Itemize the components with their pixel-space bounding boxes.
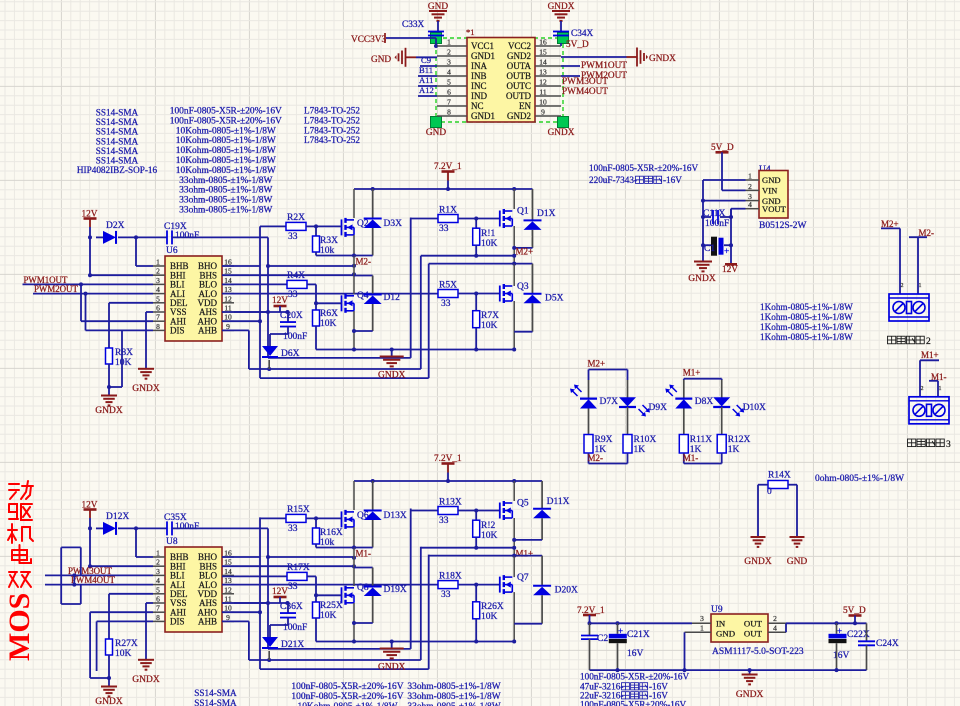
wire U4 VIN: [722, 189, 746, 191]
LED loop top wire: [589, 369, 628, 371]
MOSFET Q1: [513, 189, 515, 209]
U6 pin 12: [222, 302, 234, 304]
wire BHO to gate resistor: [222, 265, 260, 267]
wire U4 pin3: [703, 200, 746, 202]
svg-text:OUT: OUT: [744, 629, 763, 639]
U4 pin 2: [746, 189, 760, 191]
svg-text:R6X: R6X: [320, 309, 338, 319]
title glyph shuang: [9, 571, 17, 573]
resistor R18X: [438, 581, 458, 589]
svg-text:100nF-0805-X5R-±20%-16V: 100nF-0805-X5R-±20%-16V: [291, 692, 403, 702]
resistor R2X: [260, 225, 286, 227]
diode D3X: [372, 189, 374, 219]
svg-text:+: +: [618, 626, 623, 636]
svg-text:1Kohm-0805-±1%-1/8W: 1Kohm-0805-±1%-1/8W: [760, 332, 853, 342]
U4 pin 3: [746, 200, 760, 202]
svg-text:OUTA: OUTA: [507, 61, 532, 71]
title glyph dong: [9, 483, 19, 485]
svg-text:SS14-SMA: SS14-SMA: [96, 146, 139, 156]
svg-text:D8X: D8X: [695, 397, 714, 407]
U8 pin 7: [153, 611, 165, 613]
svg-text:1: 1: [748, 172, 752, 181]
wire BHB to cap junction: [135, 237, 137, 266]
capacitor C11X: [701, 215, 705, 219]
GNDX symbol above C34X: [552, 10, 570, 12]
node M2- dots: [352, 546, 356, 550]
svg-text:R9X: R9X: [595, 435, 613, 445]
svg-text:GND2: GND2: [507, 51, 531, 61]
svg-text:OUTB: OUTB: [507, 71, 532, 81]
svg-text:D21X: D21X: [281, 640, 304, 650]
svg-text:OUTC: OUTC: [507, 81, 532, 91]
svg-text:R26X: R26X: [481, 602, 504, 612]
LED D9X: [619, 397, 636, 406]
svg-text:15: 15: [539, 48, 547, 57]
svg-text:1K: 1K: [634, 445, 646, 455]
svg-text:VCC1: VCC1: [471, 41, 494, 51]
resistor R12X: [721, 407, 723, 435]
svg-text:OUTD: OUTD: [506, 91, 531, 101]
svg-text:10K: 10K: [481, 612, 498, 622]
svg-text:U6: U6: [166, 246, 178, 256]
svg-text:33: 33: [439, 516, 449, 526]
svg-text:33ohm-0805-±1%-1/8W: 33ohm-0805-±1%-1/8W: [179, 206, 272, 216]
svg-text:1Kohm-0805-±1%-1/8W: 1Kohm-0805-±1%-1/8W: [760, 312, 853, 322]
svg-text:2: 2: [773, 614, 777, 623]
svg-text:R17X: R17X: [287, 563, 310, 573]
U8 pin 12: [222, 593, 234, 595]
pin 12 stub: [535, 85, 561, 87]
svg-text:33: 33: [288, 232, 298, 242]
svg-text:0: 0: [767, 487, 772, 497]
U8 pin 15: [222, 565, 234, 567]
svg-text:33ohm-0805-±1%-1/8W: 33ohm-0805-±1%-1/8W: [179, 186, 272, 196]
svg-text:12: 12: [224, 585, 232, 594]
svg-text:6: 6: [447, 88, 451, 97]
svg-text:-16V: -16V: [663, 175, 682, 185]
svg-text:SS14-SMA: SS14-SMA: [96, 127, 139, 137]
svg-text:10k: 10k: [320, 538, 335, 548]
svg-text:VCC2: VCC2: [508, 41, 531, 51]
pad P2 top-right: [558, 33, 569, 44]
svg-text:8: 8: [156, 613, 160, 622]
svg-text:SS14-SMA: SS14-SMA: [96, 136, 139, 146]
MOSFET Q8: [353, 548, 355, 587]
U6 pin 8: [153, 329, 165, 331]
svg-text:2: 2: [921, 386, 924, 392]
svg-text:100nF-0805-X5R-±20%-16V: 100nF-0805-X5R-±20%-16V: [580, 672, 690, 682]
pin 1 stub: [437, 45, 467, 47]
svg-text:C36X: C36X: [280, 602, 303, 612]
svg-text:SS14-SMA: SS14-SMA: [194, 698, 237, 706]
svg-text:Q7: Q7: [517, 573, 529, 583]
pin 9 stub: [535, 115, 561, 117]
wire U9 GND down: [684, 632, 686, 670]
U6 pin 1: [153, 265, 165, 267]
svg-text:10Kohm-0805-±1%-1/8W: 10Kohm-0805-±1%-1/8W: [176, 126, 276, 136]
svg-text:GND: GND: [371, 55, 391, 65]
svg-text:IND: IND: [471, 91, 487, 101]
wire M2- row to R3X: [316, 547, 354, 549]
U9 pin4 stub: [768, 631, 786, 633]
connector motor2 body: [889, 294, 929, 321]
wire BHS row to M2- node: [268, 556, 354, 558]
pin 3 stub: [437, 65, 467, 67]
power port 12V out of U4: [730, 245, 732, 264]
svg-text:PWM4OUT: PWM4OUT: [71, 575, 115, 585]
U6 pin 10: [222, 320, 234, 322]
svg-text:GNDX: GNDX: [548, 128, 575, 138]
diode D5X: [514, 263, 532, 265]
svg-text:R4X: R4X: [287, 271, 305, 281]
wire AHI down: [90, 611, 153, 613]
ground GNDX at R14X: [751, 536, 766, 538]
svg-text:M2-: M2-: [356, 257, 372, 267]
svg-text:2: 2: [156, 558, 160, 567]
ground GNDX below R27X: [108, 678, 110, 686]
MOSFET Q5: [513, 481, 515, 501]
svg-text:D2X: D2X: [106, 221, 125, 231]
svg-text:33ohm-0805-±1%-1/8W: 33ohm-0805-±1%-1/8W: [407, 702, 500, 706]
svg-text:AHB: AHB: [198, 617, 217, 627]
svg-text:R15X: R15X: [287, 505, 310, 515]
wire bus2 to DIS: [85, 294, 87, 331]
svg-text:R2X: R2X: [287, 213, 305, 223]
svg-text:GNDX: GNDX: [132, 675, 160, 685]
svg-text:16V: 16V: [833, 651, 850, 661]
svg-text:1: 1: [156, 258, 160, 267]
svg-text:4: 4: [447, 68, 451, 77]
svg-text:+: +: [837, 626, 842, 636]
wire pad to pin16: [560, 43, 562, 46]
svg-text:R18X: R18X: [439, 572, 462, 582]
svg-text:M1+: M1+: [516, 549, 534, 559]
svg-text:PWM4OUT: PWM4OUT: [562, 87, 608, 97]
ground GNDX at U9: [749, 670, 751, 674]
svg-text:VIN: VIN: [762, 186, 778, 196]
wire DIS down to ground: [121, 330, 123, 387]
pin 4 stub: [437, 75, 467, 77]
wire U9 input rail: [590, 622, 693, 624]
svg-text:R!2: R!2: [481, 521, 496, 531]
svg-text:R12X: R12X: [728, 435, 751, 445]
svg-text:R8X: R8X: [115, 348, 133, 358]
pin 14 stub: [535, 65, 561, 67]
svg-text:L7843-TO-252: L7843-TO-252: [304, 115, 360, 125]
svg-text:SS14-SMA: SS14-SMA: [96, 108, 139, 118]
svg-text:U8: U8: [166, 537, 178, 547]
U6 pin 3: [153, 283, 165, 285]
svg-text:33ohm-0805-±1%-1/8W: 33ohm-0805-±1%-1/8W: [179, 196, 272, 206]
svg-text:D11X: D11X: [547, 497, 570, 507]
svg-text:GNDX: GNDX: [688, 274, 716, 284]
svg-text:PWM3OUT: PWM3OUT: [562, 77, 608, 87]
wire M1-: [929, 380, 938, 382]
svg-text:4: 4: [773, 624, 777, 633]
svg-text:L7843-TO-252: L7843-TO-252: [304, 135, 360, 145]
svg-text:GND: GND: [787, 557, 808, 567]
resistor R11X: [683, 409, 685, 435]
svg-text:VCC3V3: VCC3V3: [351, 35, 386, 45]
svg-text:3: 3: [447, 58, 451, 67]
svg-text:10K: 10K: [481, 531, 498, 541]
svg-text:C24X: C24X: [876, 639, 899, 649]
svg-text:100nF-0805-X5R±20%-16V: 100nF-0805-X5R±20%-16V: [580, 700, 686, 706]
LED loop bottom wire: [684, 463, 722, 465]
svg-text:3: 3: [700, 614, 704, 623]
polarized capacitor C22X: [836, 623, 838, 634]
connector motor3 body: [909, 397, 949, 424]
U9 pin2 stub: [768, 622, 786, 624]
diode D11X: [541, 481, 543, 509]
svg-text:VOUT: VOUT: [762, 204, 787, 214]
svg-text:SS14-SMA: SS14-SMA: [96, 156, 139, 166]
svg-text:B0512S-2W: B0512S-2W: [759, 221, 807, 231]
svg-text:SS14-SMA: SS14-SMA: [96, 117, 139, 127]
svg-text:M1-: M1-: [356, 549, 372, 559]
svg-text:2: 2: [156, 267, 160, 276]
diode D12: [354, 275, 373, 277]
svg-text:8: 8: [156, 322, 160, 331]
svg-text:R1X: R1X: [439, 206, 457, 216]
svg-text:D9X: D9X: [649, 403, 668, 413]
svg-text:7: 7: [156, 604, 160, 613]
svg-text:100nF: 100nF: [705, 219, 729, 229]
svg-text:*1: *1: [466, 27, 475, 37]
U4 pin 4: [746, 208, 760, 210]
wire gate Q4: [316, 594, 342, 596]
svg-text:6: 6: [156, 595, 160, 604]
LED D7X: [580, 398, 597, 400]
svg-text:C11X: C11X: [703, 209, 725, 219]
wire M2+: [881, 227, 900, 229]
svg-text:GND1: GND1: [471, 111, 495, 121]
source rail: [316, 349, 514, 351]
ground GNDX at VSS: [138, 368, 154, 370]
wire M2-: [909, 236, 927, 238]
U8 pin 2: [153, 565, 165, 567]
resistor R27X: [106, 639, 113, 655]
svg-text:12V: 12V: [722, 265, 738, 275]
capacitor C20X: [280, 321, 296, 323]
LED loop top wire: [684, 378, 722, 380]
svg-text:1Kohm-0805-±1%-1/8W: 1Kohm-0805-±1%-1/8W: [760, 302, 853, 312]
pin 15 stub: [535, 55, 561, 57]
svg-text:3: 3: [156, 567, 160, 576]
wire bus to AHI: [80, 284, 82, 321]
svg-text:R10X: R10X: [634, 435, 657, 445]
svg-text:R5X: R5X: [439, 281, 457, 291]
svg-text:ASM1117-5.0-SOT-223: ASM1117-5.0-SOT-223: [712, 647, 804, 657]
svg-text:14: 14: [224, 567, 232, 576]
resistor R16X: [315, 518, 317, 528]
svg-text:R!1: R!1: [481, 229, 496, 239]
diode D13X: [372, 481, 374, 511]
svg-text:2: 2: [926, 337, 931, 347]
pad P3 bottom-left: [431, 117, 442, 128]
polarized capacitor C12X: [701, 243, 705, 247]
svg-text:100nF-0805-X5R-±20%-16V: 100nF-0805-X5R-±20%-16V: [170, 116, 282, 126]
svg-text:16V: 16V: [627, 649, 644, 659]
svg-text:12V: 12V: [272, 296, 288, 306]
resistor R3X: [315, 226, 317, 236]
U8 pin 14: [222, 574, 234, 576]
resistor R17X: [222, 575, 287, 577]
wire BHS to cap/source: [222, 565, 268, 567]
svg-text:GNDX: GNDX: [95, 406, 123, 416]
wire M2- row to R3X: [316, 255, 354, 257]
svg-text:Q1: Q1: [517, 207, 529, 217]
svg-text:10K: 10K: [115, 358, 132, 368]
port GNDX top-right: [627, 56, 637, 58]
wire left bus down: [702, 217, 704, 245]
wire DIS down: [97, 620, 153, 622]
svg-text:R14X: R14X: [768, 471, 791, 481]
svg-text:INA: INA: [471, 61, 487, 71]
svg-text:Q4: Q4: [357, 291, 369, 301]
svg-text:PWM2OUT: PWM2OUT: [34, 284, 78, 294]
svg-text:220uF-7343-: 220uF-7343-: [589, 175, 637, 185]
wire DEL to R8X: [109, 302, 153, 304]
svg-text:D20X: D20X: [555, 586, 578, 596]
resistor R6X: [315, 284, 317, 310]
wire pin15 to GNDX port: [561, 56, 627, 58]
svg-text:GND: GND: [426, 128, 446, 138]
wire BHI to 12V junction: [89, 237, 91, 275]
resistor R5X: [438, 290, 458, 298]
svg-text:33ohm-0805-±1%-1/8W: 33ohm-0805-±1%-1/8W: [179, 176, 272, 186]
svg-text:DIS: DIS: [170, 326, 185, 336]
U6 pin 16: [222, 265, 234, 267]
wire VCC3V3 to pad: [386, 37, 436, 39]
wire BHS to cap/source: [222, 274, 268, 276]
svg-text:D13X: D13X: [384, 511, 407, 521]
wire PWM3OUT to BLI: [45, 574, 153, 576]
svg-text:10K: 10K: [320, 319, 337, 329]
svg-text:MOS: MOS: [3, 593, 36, 661]
U8 pin 5: [153, 593, 165, 595]
IC U1 dashed courtyard: [436, 38, 563, 122]
source rail: [316, 641, 514, 643]
U6 pin 5: [153, 302, 165, 304]
svg-text:L7843-TO-252: L7843-TO-252: [304, 106, 360, 116]
svg-text:GNDX: GNDX: [736, 690, 764, 700]
svg-text:INC: INC: [471, 81, 487, 91]
resistor R4X: [222, 283, 287, 285]
node M2- dots: [352, 254, 356, 258]
MOSFET Q6: [353, 481, 355, 510]
wire U4 pin1 to left bus: [703, 179, 746, 181]
svg-text:10Kohm-0805-±1%-1/8W: 10Kohm-0805-±1%-1/8W: [176, 146, 276, 156]
svg-text:C2: C2: [597, 634, 608, 644]
U8 pin 16: [222, 556, 234, 558]
U9 ground rail: [590, 669, 867, 671]
label motor2: [888, 336, 896, 344]
svg-text:HIP4082IBZ-SOP-16: HIP4082IBZ-SOP-16: [77, 165, 158, 175]
wire AHB routing: [222, 329, 249, 331]
wire VSS to ground: [146, 602, 153, 604]
ground GND at R14X: [790, 536, 805, 538]
svg-text:R7X: R7X: [481, 311, 499, 321]
svg-text:R13X: R13X: [439, 498, 462, 508]
junction dots 12V row: [88, 526, 92, 530]
svg-text:IN: IN: [716, 619, 726, 629]
svg-text:10K: 10K: [115, 649, 132, 659]
svg-text:3: 3: [156, 276, 160, 285]
ground GNDX bridge: [391, 642, 393, 649]
ground GNDX under U4: [702, 245, 704, 261]
svg-text:1: 1: [919, 283, 922, 289]
svg-text:10K: 10K: [320, 611, 337, 621]
diode D1X: [532, 189, 534, 220]
svg-text:M1-: M1-: [683, 453, 699, 463]
svg-text:4: 4: [748, 200, 752, 209]
wire top rail: [354, 480, 542, 482]
junction dots 12V row: [88, 235, 92, 239]
svg-text:33: 33: [439, 224, 449, 234]
resistor R15X: [260, 517, 286, 519]
wire U4 VOUT down: [731, 208, 746, 210]
wire gate Q4: [316, 302, 342, 304]
svg-text:33: 33: [288, 582, 298, 592]
wire M2+ row: [421, 255, 514, 257]
wire BHO to gate resistor: [222, 556, 260, 558]
wire M2+ second row: [429, 555, 515, 557]
pin 8 stub: [437, 115, 467, 117]
U6 pin 4: [153, 293, 165, 295]
wire PWM2OUT: [561, 75, 580, 77]
capacitor C19X: [166, 230, 168, 244]
pin 2 stub: [437, 55, 467, 57]
capacitor C23X: [589, 623, 591, 635]
wire R14X right: [788, 484, 797, 486]
U6 pin 9: [222, 329, 234, 331]
svg-text:1K: 1K: [728, 445, 740, 455]
svg-text:C9: C9: [421, 55, 431, 65]
svg-text:2: 2: [901, 283, 904, 289]
resistor R!2: [475, 511, 477, 521]
pad P1 top-left: [431, 33, 442, 44]
pad P4 bottom-right: [558, 117, 569, 128]
wire top rail: [354, 188, 533, 190]
svg-text:10K: 10K: [481, 239, 498, 249]
capacitor C34X: [553, 31, 569, 33]
pin 11 stub: [535, 95, 561, 97]
svg-text:R16X: R16X: [320, 528, 343, 538]
svg-text:0ohm-0805-±1%-1/8W: 0ohm-0805-±1%-1/8W: [815, 474, 904, 484]
wire M2+ second row: [429, 263, 515, 265]
svg-text:L7843-TO-252: L7843-TO-252: [304, 125, 360, 135]
wire AHB routing: [222, 620, 249, 622]
polarized capacitor C21X: [617, 623, 619, 634]
diode D2X: [96, 236, 103, 238]
wire PWM1OUT: [561, 65, 580, 67]
svg-text:1: 1: [447, 38, 451, 47]
wire VSS to ground: [146, 311, 153, 313]
svg-text:10Kohm-0805-±1%-1/8W: 10Kohm-0805-±1%-1/8W: [176, 156, 276, 166]
label motor3: [908, 439, 916, 447]
svg-text:2: 2: [447, 48, 451, 57]
svg-text:33: 33: [441, 299, 451, 309]
svg-text:SS14-SMA: SS14-SMA: [194, 688, 237, 698]
svg-text:EN: EN: [519, 101, 531, 111]
svg-text:GND: GND: [762, 175, 781, 185]
resistor R26X: [475, 585, 477, 602]
svg-text:DIS: DIS: [170, 617, 185, 627]
U6 pin 7: [153, 320, 165, 322]
svg-text:D5X: D5X: [545, 294, 564, 304]
svg-text:D12: D12: [384, 293, 401, 303]
